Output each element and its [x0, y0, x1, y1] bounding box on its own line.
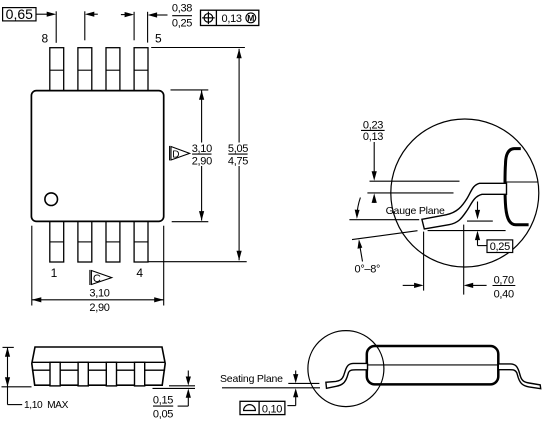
svg-text:Seating Plane: Seating Plane	[220, 373, 283, 385]
svg-text:5: 5	[155, 31, 162, 45]
dim 0,70/0,40 arrows	[403, 284, 415, 286]
svg-text:0,38: 0,38	[172, 2, 192, 14]
extension line pin7 center	[84, 11, 86, 40]
body mid parting line	[506, 181, 539, 183]
right lead	[498, 364, 540, 389]
dim 0,23/0,13 arrows	[373, 142, 375, 172]
svg-text:0,15: 0,15	[153, 395, 173, 407]
pin 8	[50, 48, 64, 92]
dim 0,25 up arrow and leader	[475, 231, 480, 241]
svg-text:D: D	[172, 150, 179, 161]
extension line pin5 left edge	[133, 12, 135, 41]
extension line at gauge point	[463, 225, 465, 295]
datum flag C	[89, 270, 91, 285]
pin 7	[78, 48, 92, 92]
arrow right at pin5 left edge	[125, 12, 135, 17]
bottom dim extension left	[31, 226, 33, 306]
dim 0,15/0,05 arrows	[187, 371, 189, 379]
gauge plane line	[349, 219, 419, 221]
angle leader upper arrow	[357, 198, 361, 216]
side view lead 4	[135, 362, 145, 386]
body parting line	[368, 364, 498, 366]
leader from 0,65 box with arrow	[36, 13, 48, 15]
extension line pin8 center	[55, 11, 57, 43]
svg-text:0,25: 0,25	[490, 241, 510, 253]
svg-text:0,10: 0,10	[262, 404, 282, 416]
M modifier circled	[246, 13, 256, 23]
svg-text:0,13: 0,13	[222, 13, 242, 25]
pin 2	[78, 221, 92, 262]
parting band lines	[32, 361, 165, 363]
lead tip line right	[169, 385, 195, 387]
seating line right	[153, 387, 196, 389]
extension line at lead tip	[423, 232, 425, 291]
seating level line in detail	[428, 230, 506, 232]
vertical dim line 3,10/2,90	[201, 90, 203, 142]
flatness feature frame	[240, 401, 285, 414]
body side (rounded)	[367, 346, 499, 384]
svg-text:2,90: 2,90	[192, 156, 212, 168]
svg-text:0,65: 0,65	[6, 6, 33, 22]
pin 4	[134, 221, 148, 262]
svg-text:5,05: 5,05	[228, 143, 248, 155]
small detail circle	[308, 331, 384, 407]
molded body side profile	[32, 347, 165, 385]
svg-text:3,10: 3,10	[89, 287, 109, 299]
seating plane line	[222, 387, 320, 389]
lead thickness reference line upper	[370, 180, 460, 182]
svg-text:0,70: 0,70	[494, 274, 514, 286]
dim 1,10 MAX line and arrows	[7, 347, 9, 404]
pin 5	[134, 48, 148, 92]
svg-text:0,13: 0,13	[363, 131, 383, 143]
pin 1	[50, 221, 64, 262]
feature control frame: position 0,13 M	[201, 10, 259, 25]
datum flag D	[169, 146, 171, 161]
side view lead 1	[50, 362, 60, 386]
svg-text:2,90: 2,90	[89, 302, 109, 314]
dim 0,25 down arrow	[477, 202, 479, 213]
flatness symbol	[244, 405, 256, 411]
bottom pins step line	[50, 241, 148, 243]
vertical dim 3,10/2,90 extension bottom	[172, 221, 209, 223]
svg-text:0,23: 0,23	[363, 119, 383, 131]
vertical dim line 5,05/4,75	[238, 49, 240, 143]
vertical dim 3,10/2,90 extension top	[171, 89, 209, 91]
dim 0,25 upper short line	[467, 220, 493, 222]
boxed dim 0,25	[487, 240, 513, 253]
svg-text:0°–8°: 0°–8°	[355, 263, 381, 275]
svg-text:3,10: 3,10	[192, 143, 212, 155]
svg-text:4,75: 4,75	[228, 156, 248, 168]
pin 1 index circle	[45, 193, 58, 206]
pin 3	[106, 221, 120, 262]
lead cross-section	[422, 183, 507, 229]
left lead	[326, 363, 368, 388]
bottom dim extension right	[163, 226, 165, 306]
svg-text:8: 8	[41, 31, 48, 45]
pin 6	[106, 48, 120, 92]
vertical dim 5,05/4,75 extension top	[151, 47, 245, 49]
detail circle	[391, 119, 539, 267]
svg-text:M: M	[247, 13, 254, 23]
dim 1,10 MAX extension top	[3, 346, 14, 348]
top pins step line	[50, 69, 148, 71]
svg-text:0,40: 0,40	[494, 288, 514, 300]
side view lead 3	[106, 362, 116, 386]
seating line left	[2, 386, 32, 388]
seating dim arrows	[295, 371, 297, 376]
lead thickness reference line lower	[367, 192, 453, 194]
foot angle line 0-8 deg	[352, 231, 418, 240]
svg-text:1,10 MAX: 1,10 MAX	[24, 400, 69, 411]
position symbol	[204, 14, 213, 23]
arrow left at pin5 right edge with leader to 0,38/0,25	[148, 12, 158, 17]
svg-text:0,05: 0,05	[153, 408, 173, 420]
angle leader lower arrow	[359, 244, 362, 262]
svg-text:1: 1	[51, 266, 58, 280]
arrow left at pin7 center	[85, 12, 95, 17]
svg-text:Gauge Plane: Gauge Plane	[386, 205, 445, 217]
lead tip level line	[288, 382, 319, 384]
bottom dim line 3,10/2,90	[32, 299, 164, 301]
svg-text:4: 4	[136, 266, 143, 280]
svg-text:0,25: 0,25	[172, 17, 192, 29]
extension line pin5 right edge	[147, 12, 149, 43]
vertical dim 5,05/4,75 extension bottom	[149, 261, 247, 263]
package body end (thick)	[505, 149, 529, 225]
package body outline	[31, 91, 163, 222]
side view lead 2	[78, 362, 88, 386]
svg-text:C: C	[93, 273, 101, 285]
dimension 0,65 boxed label	[3, 8, 36, 21]
